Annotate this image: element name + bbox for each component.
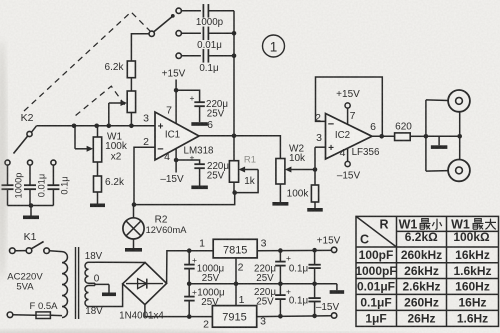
potentiometer W2 10k	[276, 159, 285, 185]
potentiometer R1 1k	[229, 161, 238, 183]
node: bridge junction	[232, 134, 237, 139]
K2 contact 2	[28, 160, 33, 165]
ground (lamp)	[133, 239, 135, 248]
op-amp U1 IC1 LM318	[155, 112, 199, 160]
potentiometer W1 lower half	[97, 126, 99, 137]
header 最大	[473, 219, 484, 230]
node	[424, 134, 429, 139]
node	[187, 314, 192, 319]
wire: bridge - to 7915	[145, 305, 213, 317]
wire to upper jack	[426, 99, 448, 102]
header 最小	[420, 219, 431, 230]
jack J1 (upper output)	[448, 90, 470, 112]
ground (100k)	[314, 202, 316, 208]
scan noise overlay	[0, 0, 1, 1]
wire: jack distribution	[425, 100, 427, 171]
scan edge shading	[0, 330, 230, 333]
transformer secondary lower 18V	[85, 286, 89, 307]
node	[129, 124, 134, 129]
wire	[410, 135, 426, 137]
node	[278, 282, 283, 287]
capacitor 0.01μ (shunt)	[29, 165, 31, 185]
node	[72, 124, 77, 129]
wire: regulator common	[235, 258, 237, 306]
rotary switch S1 contact 3	[176, 53, 181, 58]
transformer secondary upper 18V	[85, 262, 89, 283]
wire K1 to transformer	[49, 250, 62, 253]
node	[107, 124, 112, 129]
wire: bridge + to 7815	[167, 251, 214, 284]
node	[187, 248, 192, 253]
wire: right bus from caps down to IC1 output node	[233, 11, 235, 161]
wire K2 pivot to + input rail	[32, 126, 37, 132]
wire to lower jack	[426, 170, 448, 173]
node	[379, 134, 384, 139]
ground (W1 lower)	[97, 192, 99, 204]
wire: R1 bottom to lamp node	[134, 193, 235, 205]
capacitor 0.01μ (series)	[181, 32, 201, 34]
node	[457, 134, 462, 139]
transformer T primary	[62, 252, 67, 318]
wire: ground mid rail	[189, 283, 337, 285]
node	[312, 314, 317, 319]
wire: top tap to bridge	[95, 261, 145, 263]
rotary switch S1 wiper pivot	[149, 31, 154, 36]
ground (cap)	[199, 168, 201, 185]
resistor 6.2k (lower, to ground)	[97, 162, 99, 176]
rotary switch S1 contact 2	[176, 31, 181, 36]
wire: 7915 out rail	[257, 315, 332, 318]
ground (shunt caps)	[30, 206, 32, 216]
node	[278, 314, 283, 319]
dashed mechanical link K2 to S1	[24, 12, 150, 111]
jack J2 (lower output)	[448, 160, 470, 182]
node	[312, 282, 317, 287]
K1 arm	[31, 242, 43, 249]
node	[174, 158, 179, 163]
ground (W2)	[279, 184, 281, 202]
node	[29, 203, 34, 208]
rotary switch S1 wiper arm	[154, 17, 173, 32]
node	[313, 167, 318, 172]
capacitor 0.1μ (+out)	[314, 250, 316, 264]
wire: bottom tap to bridge	[95, 284, 123, 307]
wire: IC1 pin3 (+) input rail	[37, 125, 156, 127]
node	[232, 190, 237, 195]
K2 contact 3	[51, 160, 56, 165]
capacitor 220μ 25V (IC1 +supply)	[176, 90, 200, 102]
resistor 6.2k (upper, series with S1 wiper)	[127, 61, 135, 78]
capacitor 220μ 25V (+out)	[279, 251, 281, 261]
node	[174, 88, 179, 93]
node	[312, 248, 317, 253]
-15V supply IC1	[175, 149, 177, 173]
capacitor 0.1μ (series)	[181, 55, 201, 57]
wire: IC1 pin2 to feedback node	[134, 147, 155, 204]
capacitor 1000p (series)	[181, 10, 201, 12]
capacitor 0.1μ (shunt)	[52, 165, 54, 185]
regulator 7815	[213, 239, 257, 258]
node	[187, 282, 192, 287]
wire: shunt cap common rail	[8, 205, 54, 207]
wire: IC2 pin3	[315, 146, 326, 148]
capacitor 220μ 25V (-out)	[279, 284, 281, 295]
capacitor 0.1μ (-out)	[314, 284, 316, 298]
op-amp U2 IC2 LF356	[326, 114, 373, 160]
K2 wiper arm	[14, 136, 28, 154]
node	[132, 202, 137, 207]
node: cap3 join	[232, 54, 237, 59]
wire: IC1 output to W2	[199, 136, 280, 159]
wire: IC2 output	[372, 135, 395, 137]
node	[234, 282, 239, 287]
regulator 7915	[212, 306, 256, 328]
node: cap2 join	[232, 31, 237, 36]
figure number circled 1	[263, 35, 285, 57]
wire from S1 pivot down to 6.2k	[131, 34, 149, 61]
capacitor 1000μ 25V (-input)	[188, 284, 190, 296]
lamp R2 12V60mA	[133, 205, 135, 218]
feedback wire IC2 out to pin2	[316, 77, 383, 136]
capacitor 220μ 25V (IC1 -supply)	[176, 160, 200, 164]
ground (mid rail)	[336, 284, 338, 290]
wire: 7815 out rail	[257, 249, 331, 251]
potentiometer W1 upper half	[127, 91, 135, 113]
dashed mechanical link W1 gang	[76, 86, 131, 115]
rotary switch S1 contact 1	[176, 8, 181, 13]
ground (output)	[438, 136, 440, 145]
node	[94, 124, 99, 129]
capacitor 1000p (shunt)	[7, 165, 9, 185]
node	[278, 248, 283, 253]
-15V terminal IC2	[347, 148, 349, 161]
capacitor 1000μ 25V (+input)	[188, 251, 190, 264]
transformer core	[75, 247, 77, 319]
table: frequency range	[356, 216, 499, 326]
resistor 100k	[314, 147, 316, 185]
wire: shell link	[426, 135, 460, 137]
bridge rectifier 1N4001x4	[123, 263, 167, 305]
K2 contact 1	[5, 160, 10, 165]
ground (cap)	[199, 106, 201, 122]
